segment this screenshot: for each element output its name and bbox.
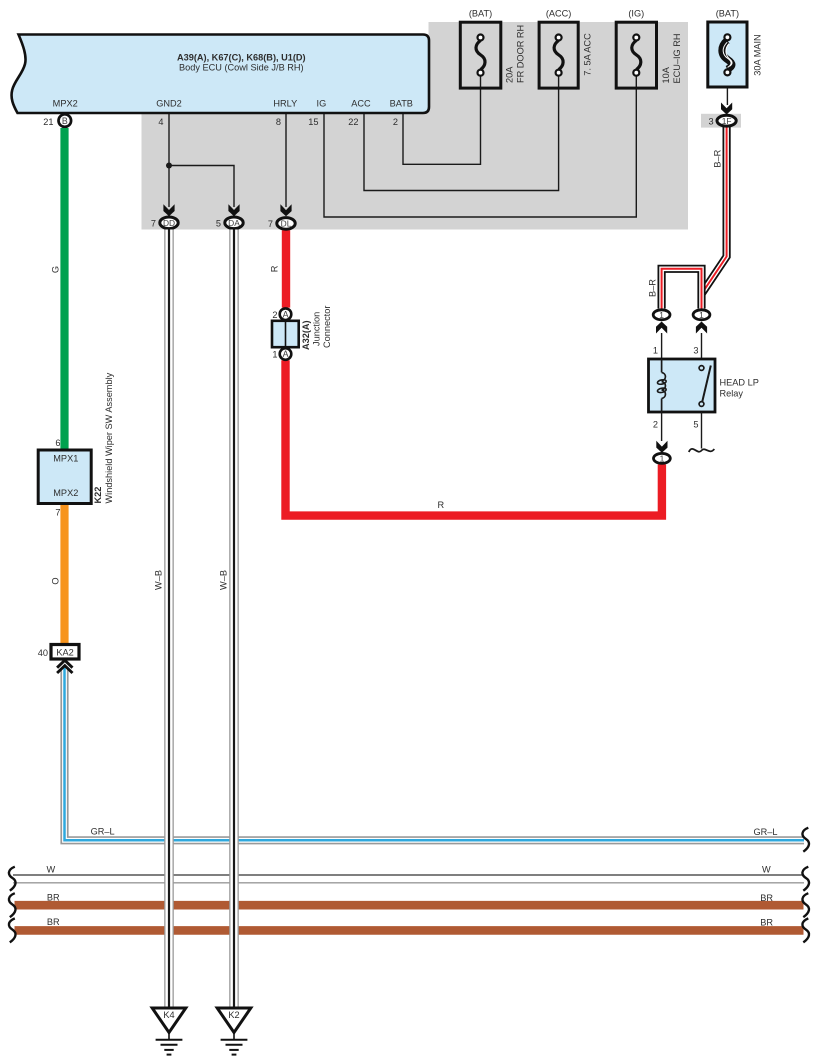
oval connector DD <box>151 217 178 229</box>
svg-text:Windshield Wiper SW Assembly: Windshield Wiper SW Assembly <box>104 372 114 503</box>
svg-text:1: 1 <box>659 310 664 320</box>
svg-text:3: 3 <box>708 117 713 127</box>
wire relay pin1 up <box>661 333 663 359</box>
svg-text:22: 22 <box>348 117 358 127</box>
svg-text:ACC: ACC <box>351 99 371 109</box>
svg-text:KA2: KA2 <box>56 648 73 658</box>
ground K2 <box>217 1008 251 1055</box>
continuation squiggle GR-L right <box>802 828 809 852</box>
svg-text:3: 3 <box>693 346 698 356</box>
wire W horizontal <box>13 874 804 876</box>
continuation squiggle W right <box>802 867 809 891</box>
svg-text:1: 1 <box>272 350 277 360</box>
shield chevrons below KA2 <box>57 660 72 673</box>
svg-text:Body ECU (Cowl Side J/B RH): Body ECU (Cowl Side J/B RH) <box>179 62 304 72</box>
continuation squiggle W left <box>9 867 16 891</box>
svg-text:MPX2: MPX2 <box>53 488 78 498</box>
svg-text:A39(A), K67(C), K68(B), U1(D): A39(A), K67(C), K68(B), U1(D) <box>177 53 306 63</box>
svg-text:R: R <box>270 265 280 272</box>
wire GND2 branch to DA <box>169 166 234 208</box>
svg-text:1: 1 <box>660 454 665 464</box>
svg-text:BR: BR <box>760 918 773 928</box>
svg-text:B–R: B–R <box>713 149 723 167</box>
arrow into DA <box>228 204 239 216</box>
svg-text:A32(A): A32(A) <box>301 320 311 350</box>
svg-text:GR–L: GR–L <box>91 827 115 837</box>
svg-text:1F: 1F <box>722 116 732 126</box>
thick wire R: A32 to HEAD LP relay connector <box>286 360 662 515</box>
svg-text:Junction: Junction <box>312 312 322 346</box>
svg-text:Relay: Relay <box>720 389 744 399</box>
wire BR 2 <box>15 926 804 935</box>
svg-text:R: R <box>437 500 444 510</box>
wire HRLY pin8 down to DL <box>285 113 287 207</box>
svg-text:7: 7 <box>268 219 273 229</box>
svg-text:A: A <box>283 349 289 359</box>
arrow into 1F <box>721 103 732 115</box>
svg-text:30A MAIN: 30A MAIN <box>753 34 763 75</box>
svg-text:K4: K4 <box>163 1010 174 1020</box>
wire relay pin2 down <box>661 412 663 441</box>
svg-text:IG: IG <box>317 99 327 109</box>
fuse 10A ECU-IG RH <box>616 9 682 89</box>
junction connector A32(A) circle A top <box>272 308 291 320</box>
svg-text:40: 40 <box>38 648 48 658</box>
svg-text:2: 2 <box>653 420 658 430</box>
svg-text:2: 2 <box>272 310 277 320</box>
svg-text:Connector: Connector <box>322 306 332 348</box>
svg-text:HRLY: HRLY <box>273 99 297 109</box>
fuse 30A MAIN <box>708 9 763 88</box>
wire IG pin15 to fuse 10A ECU-IG RH <box>324 76 636 217</box>
svg-text:7. 5A ACC: 7. 5A ACC <box>583 33 593 76</box>
connector 1F shading strip <box>701 114 741 128</box>
svg-text:4: 4 <box>158 117 163 127</box>
svg-text:K2: K2 <box>228 1010 239 1020</box>
svg-text:MPX2: MPX2 <box>53 99 78 109</box>
ground K4 <box>152 1008 186 1055</box>
svg-text:8: 8 <box>276 117 281 127</box>
svg-text:FR DOOR RH: FR DOOR RH <box>516 25 526 83</box>
svg-text:W: W <box>47 865 56 875</box>
thick wire G (green) MPX2 to K22 <box>60 128 68 451</box>
svg-text:A: A <box>283 309 289 319</box>
svg-text:21: 21 <box>43 117 53 127</box>
junction dot on GND2 wire <box>166 163 172 169</box>
oval connector DL <box>268 218 295 230</box>
svg-text:MPX1: MPX1 <box>53 454 78 464</box>
thick wire O (orange) K22 to KA2 <box>60 503 68 645</box>
svg-text:HEAD LP: HEAD LP <box>720 378 759 388</box>
ECU box A39/K67/K68/U1 <box>12 35 429 114</box>
oval connector 1 (relay output) <box>654 453 671 463</box>
svg-text:BR: BR <box>47 917 60 927</box>
svg-text:G: G <box>51 266 61 273</box>
connector KA2 <box>38 645 79 660</box>
fuse 7.5A ACC <box>539 9 592 89</box>
continuation squiggle BR2 right <box>802 918 809 942</box>
svg-text:(BAT): (BAT) <box>469 9 492 19</box>
oval connector 1F <box>708 115 736 126</box>
svg-text:5: 5 <box>216 219 221 229</box>
wire BATB pin2 to fuse 20A FR DOOR RH <box>403 76 481 164</box>
svg-text:DL: DL <box>281 219 292 229</box>
continuation squiggle BR1 right <box>802 893 809 917</box>
wire 30A MAIN fuse to connector 1F <box>726 76 728 105</box>
pin circle B <box>59 114 72 127</box>
wire GR-L from KA2 to bottom right <box>65 668 805 841</box>
junction connector A32(A) circle A bottom <box>272 348 291 360</box>
svg-text:W–B: W–B <box>154 570 164 590</box>
wire relay pin3 up <box>701 333 703 359</box>
svg-text:(BAT): (BAT) <box>716 9 739 19</box>
continuation squiggle pin5 <box>689 449 715 452</box>
wire W-B vertical (left, DD to K4) <box>164 230 174 1009</box>
svg-text:O: O <box>51 577 61 584</box>
svg-text:DD: DD <box>163 218 175 228</box>
svg-text:(IG): (IG) <box>628 9 644 19</box>
wire B-R: 1F down and diagonal to relay branch <box>702 127 727 294</box>
relay HEAD LP box <box>649 359 716 412</box>
wire B-R: branch to two connectors 1 <box>662 269 702 309</box>
svg-text:W: W <box>762 865 771 875</box>
K22 switch box <box>38 450 91 504</box>
wire BR 1 <box>15 901 804 910</box>
svg-text:2: 2 <box>393 117 398 127</box>
svg-text:K22: K22 <box>93 487 103 504</box>
svg-text:10A: 10A <box>661 66 671 83</box>
junction connector A32(A) box <box>272 321 299 347</box>
arrow up into right connector 1 <box>696 322 707 334</box>
oval connector 1 (left) <box>653 310 670 320</box>
svg-text:6: 6 <box>55 438 60 448</box>
svg-text:1: 1 <box>699 310 704 320</box>
svg-text:(ACC): (ACC) <box>546 9 572 19</box>
wire ACC pin22 to fuse 7.5A ACC <box>364 76 559 191</box>
fuse 20A FR DOOR RH <box>460 9 525 89</box>
svg-text:20A: 20A <box>505 66 515 83</box>
svg-text:GND2: GND2 <box>156 99 182 109</box>
arrow into connector 1 (relay output) <box>656 441 667 453</box>
svg-text:1: 1 <box>653 346 658 356</box>
svg-text:B–R: B–R <box>648 279 658 297</box>
wire W-B vertical (right, DA to K2) <box>229 230 239 1009</box>
arrow up into left connector 1 <box>656 322 667 334</box>
svg-text:BR: BR <box>760 893 773 903</box>
arrow into DL <box>280 204 291 216</box>
relay switch contact <box>699 366 711 407</box>
svg-text:BATB: BATB <box>390 99 413 109</box>
oval connector 1 (right) <box>693 310 710 320</box>
relay coil <box>657 359 666 412</box>
svg-text:DA: DA <box>228 218 240 228</box>
continuation squiggle BR2 left <box>9 918 16 942</box>
continuation squiggle BR1 left <box>9 893 16 917</box>
svg-text:BR: BR <box>47 892 60 902</box>
arrow into DD <box>163 204 174 216</box>
svg-text:7: 7 <box>151 219 156 229</box>
svg-text:W–B: W–B <box>219 570 229 590</box>
wire GND2 pin4 down <box>168 113 170 207</box>
svg-text:7: 7 <box>55 508 60 518</box>
svg-text:GR–L: GR–L <box>754 827 778 837</box>
svg-text:5: 5 <box>693 420 698 430</box>
svg-text:15: 15 <box>308 117 318 127</box>
wire relay pin5 down <box>701 412 703 449</box>
junction block shading (gray region) <box>142 22 689 230</box>
oval connector DA <box>216 217 243 229</box>
thick wire R: DL to junction A32 <box>282 230 290 307</box>
svg-text:B: B <box>62 116 68 126</box>
svg-text:ECU–IG RH: ECU–IG RH <box>672 33 682 83</box>
